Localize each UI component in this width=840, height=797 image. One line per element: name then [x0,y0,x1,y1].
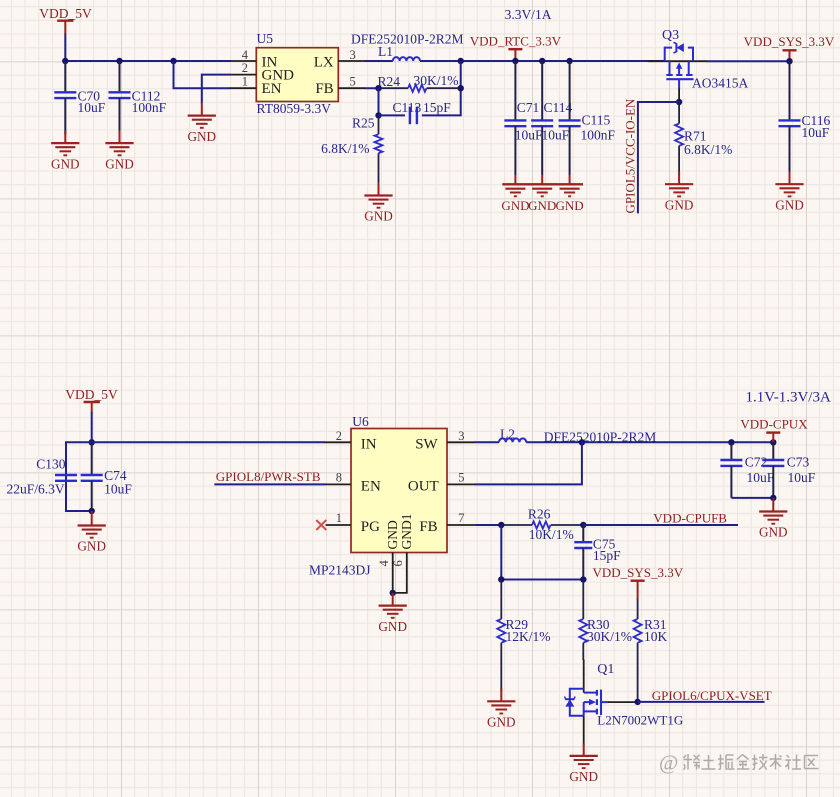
watermark @稀土掘金技术社区 (drawn strokes) [659,751,819,775]
ground GND under C114 [528,175,556,213]
power port VDD_SYS_3.3V (top right) [744,34,835,61]
junction node Q3 gate / R71 [676,99,682,105]
inductor L1 [378,44,420,61]
ground GND under R25 [364,183,393,224]
capacitor C130 [6,456,77,496]
svg-text:C114: C114 [544,100,573,115]
op-amp U6 buck converter MP2143 body [309,414,447,577]
svg-text:GND: GND [759,524,788,539]
junction node at VDD_5V/C70 [62,58,68,64]
svg-text:4: 4 [377,560,391,567]
ground GND under C71 [501,175,583,213]
svg-text:C71: C71 [517,100,540,115]
svg-text:VDD_SYS_3.3V: VDD_SYS_3.3V [744,34,835,49]
svg-text:GND: GND [487,715,516,730]
svg-text:2: 2 [242,61,248,75]
resistor R26 [503,506,583,542]
区 [805,756,819,769]
svg-text:U5: U5 [257,31,274,46]
svg-text:VDD_5V: VDD_5V [65,387,118,402]
svg-text:6.8K/1%: 6.8K/1% [321,141,369,156]
wire C72/C73 bottom rail [731,497,773,499]
resistor R31 [634,600,668,702]
ground GND under U6 [378,593,407,634]
value label DFE252010P-2R2M of L2 [544,430,657,445]
net label GPIOL8/PWR-STB [216,469,321,484]
resistor R25 [321,115,382,186]
svg-text:1: 1 [336,511,342,525]
net label VDD-CPUFB [653,511,727,526]
svg-text:GND: GND [188,129,217,144]
pin 4 GND of U6 (bottom) [377,520,400,593]
svg-text:GND: GND [665,197,694,212]
wire FB pin to R26 [474,524,504,526]
ground GND under C74 [77,511,106,554]
svg-text:PG: PG [361,519,380,535]
ground GND under C70 [51,131,80,172]
svg-text:5: 5 [350,74,356,88]
svg-text:100nF: 100nF [132,100,167,115]
svg-text:GND: GND [569,769,598,784]
svg-text:8: 8 [336,471,342,485]
金 [737,755,750,770]
wire C113 left lead [379,114,406,116]
junction node L1 output [458,58,464,64]
svg-text:15pF: 15pF [593,548,621,563]
掘 [718,755,735,770]
wire R26 to VDD-CPUFB [583,524,738,526]
svg-text:EN: EN [262,81,282,97]
svg-text:C113: C113 [393,100,422,115]
wire EN branch down and right to U5 pin 1 [174,61,231,88]
junction node C115 top [566,58,572,64]
svg-text:GPIOL8/PWR-STB: GPIOL8/PWR-STB [216,469,321,484]
svg-text:GND: GND [105,156,134,171]
wire top bus VDD_5V to U5 IN [65,60,230,62]
capacitor C113 [393,100,452,124]
svg-text:OUT: OUT [408,479,439,495]
capacitor C70 [54,61,105,135]
resistor R30 [579,580,632,661]
wire Q1 gate to GPIOL6 node [608,701,638,703]
svg-text:3: 3 [350,48,356,62]
svg-text:GND: GND [51,156,80,171]
svg-text:R25: R25 [352,116,375,131]
svg-text:MP2143DJ: MP2143DJ [309,562,371,577]
svg-text:C73: C73 [787,455,810,470]
svg-text:GND: GND [364,209,393,224]
svg-text:10uF: 10uF [104,482,132,497]
annotation 3.3V/1A [505,7,552,22]
svg-text:Q1: Q1 [597,662,614,677]
svg-text:3: 3 [458,429,464,443]
wire R29 branch from FB node down [500,525,502,580]
capacitor C115 [559,61,616,175]
capacitor C112 [109,61,167,135]
svg-text:VDD_SYS_3.3V: VDD_SYS_3.3V [592,565,683,580]
ground GND under R71 [665,172,694,213]
junction node at C112 [116,58,122,64]
svg-text:VDD_RTC_3.3V: VDD_RTC_3.3V [470,33,562,48]
pin 6 GND1 of U6 (bottom) [391,514,414,593]
svg-text:GND: GND [385,520,400,549]
pin 3 LX of U5 [314,48,365,70]
resistor R29 [497,580,550,692]
ground GND under C112 [105,131,134,172]
svg-text:3.3V/1A: 3.3V/1A [505,7,552,22]
junction node L2 out / OUT loop [579,439,585,445]
svg-text:C130: C130 [36,456,66,471]
pin 4 IN of U5 [230,48,278,70]
capacitor C71 [504,61,543,175]
junction node C72 top [728,439,734,445]
pin 3 SW of U6 [415,429,474,453]
ground GND under C116 [775,172,804,213]
resistor R71 [675,102,732,175]
svg-text:GPIOL5/VCC-IO-EN: GPIOL5/VCC-IO-EN [623,98,638,213]
svg-text:GND: GND [775,197,804,212]
junction node VDD_5V input [89,439,95,445]
svg-text:VDD-CPUX: VDD-CPUX [740,416,808,431]
wire R30 to Q1 drain [583,660,585,693]
wire FB pin to R24 [365,87,382,89]
svg-text:VDD-CPUFB: VDD-CPUFB [653,511,727,526]
svg-text:10uF: 10uF [788,470,816,485]
svg-text:SW: SW [415,436,438,452]
junction node FB right [458,85,464,91]
土 [702,755,716,769]
svg-text:GND: GND [556,198,584,213]
svg-text:GND: GND [501,198,529,213]
op-amp U5 regulator RT8059 body [256,31,338,116]
junction node crossbar left [498,576,504,582]
pin 1 PG of U6 with no-connect cross [316,511,380,535]
wire L2 to VDD-CPUX [526,441,773,443]
wire SW to L2 [474,441,499,443]
ground GND under U5 pin 2 [188,102,217,144]
wire GPIOL6 net [638,701,765,703]
wire OUT pin loop up to SW node [474,442,582,484]
svg-text:Q3: Q3 [662,28,679,43]
svg-text:C72: C72 [745,455,768,470]
wire VDD_5V to top bus [64,34,66,62]
pin 5 OUT of U6 [408,471,474,495]
svg-text:10K: 10K [644,629,668,644]
pin 8 EN of U6 [326,471,381,495]
svg-text:10uF: 10uF [515,128,543,143]
pin 7 FB of U6 [419,511,474,535]
pin 5 FB of U5 [315,74,365,97]
svg-text:VDD_5V: VDD_5V [39,6,92,21]
svg-text:DFE252010P-2R2M: DFE252010P-2R2M [351,32,464,47]
wire U5 pin 2 to ground [202,75,231,103]
社 [786,755,802,770]
wire L1 to VDD_RTC bus [420,60,665,62]
svg-text:GND: GND [528,198,556,213]
junction node C73 bottom [770,495,776,501]
wire input bus to U6 IN [92,441,325,443]
wire feedback loop right vertical [422,61,461,115]
pin 1 EN of U5 [230,74,282,97]
svg-text:100nF: 100nF [581,128,616,143]
power port VDD-CPUX [740,416,808,442]
svg-text:U6: U6 [352,414,369,429]
稀 [684,754,701,770]
ground GND under C72/C73 [759,498,788,539]
junction node R24 left [375,85,381,91]
transistor Q1 NMOS [565,662,684,728]
svg-text:GND1: GND1 [399,514,414,550]
svg-text:GND: GND [77,539,106,554]
svg-text:GPIOL6/CPUX-VSET: GPIOL6/CPUX-VSET [652,688,772,703]
svg-text:@: @ [659,751,678,775]
power port VDD_RTC_3.3V [470,33,562,61]
svg-text:R24: R24 [378,74,401,89]
svg-text:L2N7002WT1G: L2N7002WT1G [597,713,683,728]
wire Q3 gate down to node [678,89,680,103]
svg-text:1: 1 [242,74,248,88]
junction node C74 bottom [89,508,95,514]
capacitor C75 [574,525,621,580]
svg-text:AO3415A: AO3415A [692,75,748,90]
svg-text:7: 7 [458,511,464,525]
svg-text:6: 6 [391,560,405,566]
junction node R26 right / C75 [580,522,586,528]
wire VDD_5V down to input node [91,412,93,442]
net label GPIOL5/VCC-IO-EN [623,98,638,213]
svg-text:LX: LX [314,54,334,70]
svg-text:FB: FB [315,81,333,97]
svg-text:6.8K/1%: 6.8K/1% [684,142,732,157]
capacitor C74 [81,442,133,511]
svg-text:1.1V-1.3V/3A: 1.1V-1.3V/3A [746,390,831,406]
capacitor C114 [531,61,572,175]
junction node FB/R29 [498,522,504,528]
pin 2 IN of U6 [324,429,377,453]
inductor L2 [499,427,526,443]
pin 2 GND of U5 [230,61,294,84]
net label GPIOL6/CPUX-VSET [652,688,772,703]
wire LX to L1 [365,60,393,62]
junction node VDD_RTC [512,58,518,64]
ground GND under Q1 [569,744,598,785]
annotation 1.1V-1.3V/3A [746,390,831,406]
wire crossbar between R29 and R30 branches [501,579,583,581]
junction node C114 top [539,58,545,64]
wire Q1 source to ground [583,716,585,746]
junction node C113 left [375,112,381,118]
transistor Q3 PMOS [662,28,748,90]
capacitor C116 [779,61,831,175]
ground GND under C115 [556,175,584,213]
svg-text:L2: L2 [500,427,515,442]
svg-text:10uF: 10uF [747,470,775,485]
svg-text:10K/1%: 10K/1% [529,527,574,542]
wire Q3 drain to VDD_SYS_3.3V [707,60,790,62]
svg-text:R26: R26 [528,506,551,521]
value label DFE252010P-2R2M of L1 [351,32,464,47]
svg-text:22uF/6.3V: 22uF/6.3V [6,482,64,497]
ground GND under R29 [487,689,516,730]
capacitor C72 [720,442,774,498]
junction node crossbar right [580,576,586,582]
junction node VDD_SYS / C116 [786,58,792,64]
wire R24 left down to C113 row [378,88,380,115]
capacitor C73 [762,442,815,498]
svg-text:10uF: 10uF [542,128,570,143]
resistor R24 [378,73,461,92]
power port VDD_5V (bottom) [65,387,118,413]
wire C130 branch loop [66,442,92,511]
svg-text:RT8059-3.3V: RT8059-3.3V [257,101,332,116]
svg-text:30K/1%: 30K/1% [414,73,459,88]
junction node Q1 gate / R31 [634,699,640,705]
wire gate node to GPIOL5 net label [638,102,679,213]
power port VDD_5V (top-left) [39,6,92,34]
junction node at EN branch [170,58,176,64]
power port VDD_SYS_3.3V (bottom) [592,565,683,600]
术 [770,754,782,770]
技 [752,754,768,770]
svg-text:C115: C115 [582,112,611,127]
svg-text:GND: GND [378,619,407,634]
junction node C73 top [770,439,776,445]
junction node U6 ground pins [390,590,396,596]
svg-text:30K/1%: 30K/1% [587,629,632,644]
svg-text:12K/1%: 12K/1% [506,629,551,644]
svg-text:2: 2 [336,429,342,443]
svg-text:15pF: 15pF [423,100,451,115]
svg-text:5: 5 [458,471,464,485]
wire GPIOL8 to U6 EN [214,483,326,485]
svg-text:IN: IN [361,436,377,452]
svg-text:10uF: 10uF [802,125,830,140]
svg-text:10uF: 10uF [78,100,106,115]
svg-text:FB: FB [419,519,437,535]
wire bus through Q3 source-drain [648,60,707,62]
svg-text:EN: EN [361,479,381,495]
